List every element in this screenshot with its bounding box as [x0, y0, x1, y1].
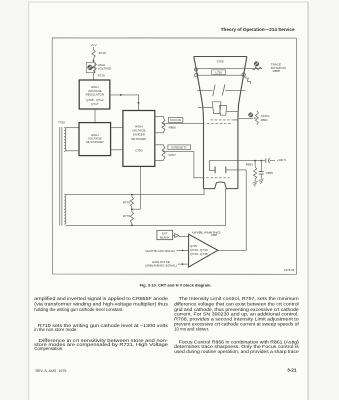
wire: [93, 58, 95, 62]
svg-text:FOCUS: FOCUS: [170, 118, 181, 122]
svg-text:difference voltage that can ex: difference voltage that can exist betwee…: [174, 302, 299, 307]
resistor R856: [254, 161, 256, 167]
svg-text:R858: R858: [273, 69, 281, 73]
svg-text:R757: R757: [169, 153, 177, 157]
svg-text:(UNBLANKING SIGNAL): (UNBLANKING SIGNAL): [145, 264, 177, 268]
wire multiplier to divider: [111, 127, 123, 129]
svg-text:C790: C790: [135, 149, 143, 153]
resistor R716: [92, 50, 95, 59]
block: high voltage multiplier: [79, 123, 111, 156]
wire regulator to multiplier: [94, 109, 96, 124]
svg-text:R719: R719: [98, 73, 106, 77]
resistor R776: [131, 209, 133, 211]
wire amp output to grid: [218, 249, 246, 251]
page edge lines: [29, 1, 308, 3]
svg-text:R776: R776: [123, 214, 131, 218]
wire: [93, 73, 95, 80]
svg-text:INTENSITY: INTENSITY: [171, 146, 187, 150]
deflection plates: [197, 90, 212, 92]
svg-text:Theory of Operation—214 Servic: Theory of Operation—214 Service: [221, 27, 295, 32]
block: high voltage regulator: [79, 80, 110, 109]
wire grid to unblanking amp: [226, 169, 246, 171]
CRT base with cathode dome: [204, 182, 238, 189]
svg-text:AMP: AMP: [211, 233, 217, 237]
svg-text:CHOP BLANK SIGNAL: CHOP BLANK SIGNAL: [145, 249, 175, 253]
svg-text:R770: R770: [123, 200, 131, 204]
svg-text:MULTIPLIER: MULTIPLIER: [86, 140, 104, 144]
mesh dashes (focus row): [207, 123, 232, 125]
potentiometer R719 HIGH VOLTAGE: [86, 63, 95, 73]
block: high voltage divider network C790: [123, 111, 155, 167]
svg-text:R856: R856: [246, 162, 254, 166]
screen line / trace rotation wire: [196, 68, 262, 70]
svg-text:C895: C895: [266, 171, 274, 175]
wire transformer to cathode: [66, 194, 204, 196]
trace rotation coil L750: [196, 74, 243, 76]
resistor R770: [131, 195, 133, 197]
page margin shading: [0, 0, 29, 400]
wire: [93, 47, 95, 50]
ground: [253, 181, 258, 183]
svg-text:UNBLANKING: UNBLANKING: [192, 230, 222, 234]
svg-text:BLANK: BLANK: [160, 235, 170, 239]
EXT BLANK input: [157, 230, 173, 239]
svg-text:+100 V: +100 V: [277, 158, 287, 162]
svg-text:L750: L750: [215, 70, 222, 74]
control grid electrode: [208, 161, 210, 171]
svg-text:Q740, Q745: Q740, Q745: [190, 252, 208, 256]
svg-text:3-21: 3-21: [287, 367, 297, 372]
svg-text:in the non store mode.: in the non store mode.: [34, 327, 77, 332]
svg-text:VOLTAGE: VOLTAGE: [98, 67, 112, 71]
svg-text:NETWORK: NETWORK: [131, 137, 146, 141]
figure frame: [52, 38, 296, 275]
svg-text:2178-03: 2178-03: [284, 268, 295, 272]
potentiometer ASTIG R861: [238, 118, 253, 120]
svg-text:REV. A, AUG. 1975: REV. A, AUG. 1975: [36, 369, 67, 373]
wire divider tap: [132, 208, 140, 210]
svg-text:T760: T760: [58, 121, 65, 125]
svg-text:+6 V: +6 V: [90, 43, 96, 47]
mesh dashes (astig row): [211, 119, 235, 121]
svg-text:(via transformer winding and h: (via transformer winding and high-voltag…: [34, 302, 169, 307]
wire winding to multiplier: [66, 127, 79, 129]
svg-text:REGULATOR: REGULATOR: [86, 93, 105, 97]
potentiometer INTENSITY R757: [155, 144, 164, 146]
svg-text:Fig. 3-10. CRT and H V block: Fig. 3-10. CRT and H V block diagram.: [140, 282, 212, 287]
focus electrode cups: [212, 102, 221, 114]
CRT V759 envelope: [194, 56, 247, 58]
wire cathode dome down: [224, 189, 226, 226]
svg-text:Compensation.: Compensation.: [34, 346, 63, 351]
capacitor to +100V: [265, 158, 267, 162]
svg-text:amplified and inverted signal: amplified and inverted signal is applied…: [34, 296, 168, 301]
bottom return rail: [66, 224, 226, 226]
svg-text:R866: R866: [169, 126, 177, 130]
svg-text:10 ms and slower.: 10 ms and slower.: [174, 326, 209, 331]
wire to cup: [198, 107, 212, 109]
svg-text:R716: R716: [99, 51, 107, 55]
svg-text:holding the writing gun cathod: holding the writing gun cathode level co…: [34, 307, 123, 312]
wire grid to R856 / C895 / +100V: [209, 160, 265, 162]
potentiometer FOCUS R866: [155, 116, 164, 118]
svg-text:Q717: Q717: [91, 102, 99, 106]
svg-text:R861: R861: [261, 118, 269, 122]
svg-text:used during routine operation,: used during routine operation, and provi…: [174, 349, 299, 354]
svg-text:The Intensity Limit control, R: The Intensity Limit control, R757, sets …: [179, 296, 300, 301]
potentiometer TRACE ROTATION R858: [254, 62, 259, 67]
svg-text:V759: V759: [216, 60, 223, 64]
wire intensity to crt grid: [165, 150, 194, 152]
op-amp unblanking amplifier: [189, 234, 218, 267]
wire regulator to divider: [110, 94, 139, 96]
capacitor C895: [260, 161, 262, 172]
